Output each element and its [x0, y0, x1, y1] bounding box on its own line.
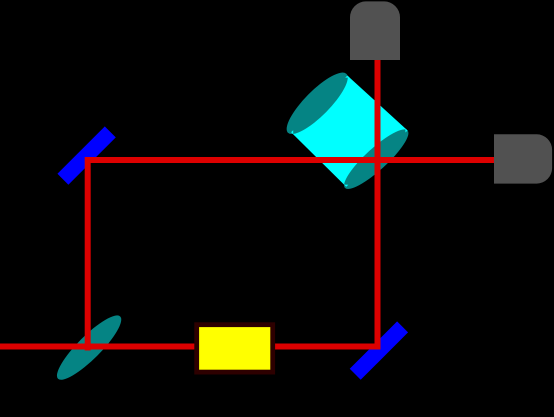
- beam splitter cube BS2 (cylinder): [279, 65, 415, 196]
- beam splitter plate BS1 (lens ellipse): [50, 308, 128, 386]
- detector D2 (right): [494, 134, 552, 183]
- mirror M2 (bottom right): [350, 321, 408, 379]
- mirror M1 (top left): [57, 126, 115, 184]
- sample cell (yellow box): [197, 325, 273, 372]
- detector D1 (top): [350, 1, 400, 60]
- wire: beam left vertical + upper path: [88, 160, 494, 351]
- wire: beam lower path + right vertical: [0, 58, 378, 347]
